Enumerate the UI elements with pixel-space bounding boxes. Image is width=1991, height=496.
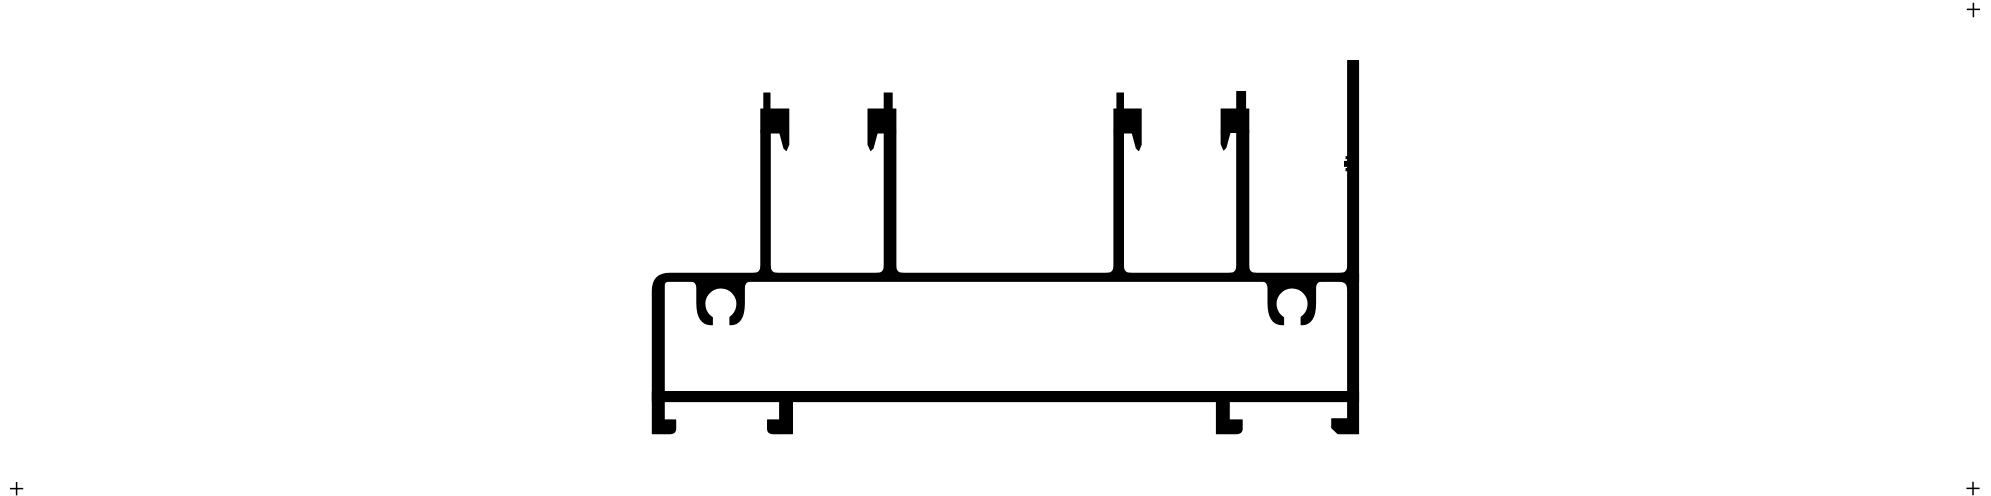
fin 3 top bar (1117, 93, 1124, 110)
fin 4 stem (1237, 130, 1249, 274)
fin 1 stem (761, 130, 771, 274)
fin 2 stem (884, 130, 896, 274)
left inner foot toe (768, 420, 780, 434)
fin 4 flag block (1221, 109, 1249, 133)
fin 4 root fillet left (1230, 266, 1237, 273)
fin 4 root fillet right (1249, 266, 1256, 273)
registration mark bottom-right (1966, 482, 1979, 495)
fin 1 hook tooth (780, 133, 789, 151)
fin 1 top bar (764, 93, 770, 110)
fin 2 root fillet left (877, 266, 884, 273)
fin 3 root fillet right (1124, 266, 1131, 273)
fin 1 flag block (761, 109, 789, 133)
left inner foot stem (780, 402, 793, 434)
right vertical flange bar (1348, 61, 1359, 434)
fin 3 root fillet left (1107, 266, 1114, 273)
right inner foot toe (1229, 420, 1242, 434)
registration mark top-right (1967, 3, 1980, 17)
fin 2 top bar (884, 93, 892, 110)
fin 4 hook tooth (1221, 132, 1230, 150)
fin 3 stem (1114, 130, 1124, 274)
fin 1 root fillet right (770, 266, 777, 273)
registration mark bottom-left (10, 482, 23, 495)
top rail and left wall of profile body (652, 273, 1358, 434)
right screw boss (C-shaped) (1262, 281, 1323, 325)
fin 4 top bar (1237, 92, 1246, 111)
fillet at top rail / right bar junction (below rail) (1340, 281, 1348, 289)
fin 2 flag block (868, 109, 896, 133)
fillet at top rail / right bar junction (above rail) (1341, 266, 1348, 273)
fin 1 root fillet left (754, 266, 761, 273)
left screw boss (C-shaped) (690, 281, 751, 325)
fin 3 flag block (1114, 109, 1141, 133)
fin 3 hook tooth (1132, 133, 1141, 151)
fin 2 root fillet right (896, 266, 903, 273)
fin 2 hook tooth (868, 133, 877, 151)
small tick mark on right bar (1345, 161, 1349, 166)
right outer foot toe (1332, 419, 1348, 434)
right inner foot stem (1216, 402, 1229, 434)
bottom rail of profile body (652, 392, 1358, 402)
left outer foot toe (664, 420, 675, 434)
